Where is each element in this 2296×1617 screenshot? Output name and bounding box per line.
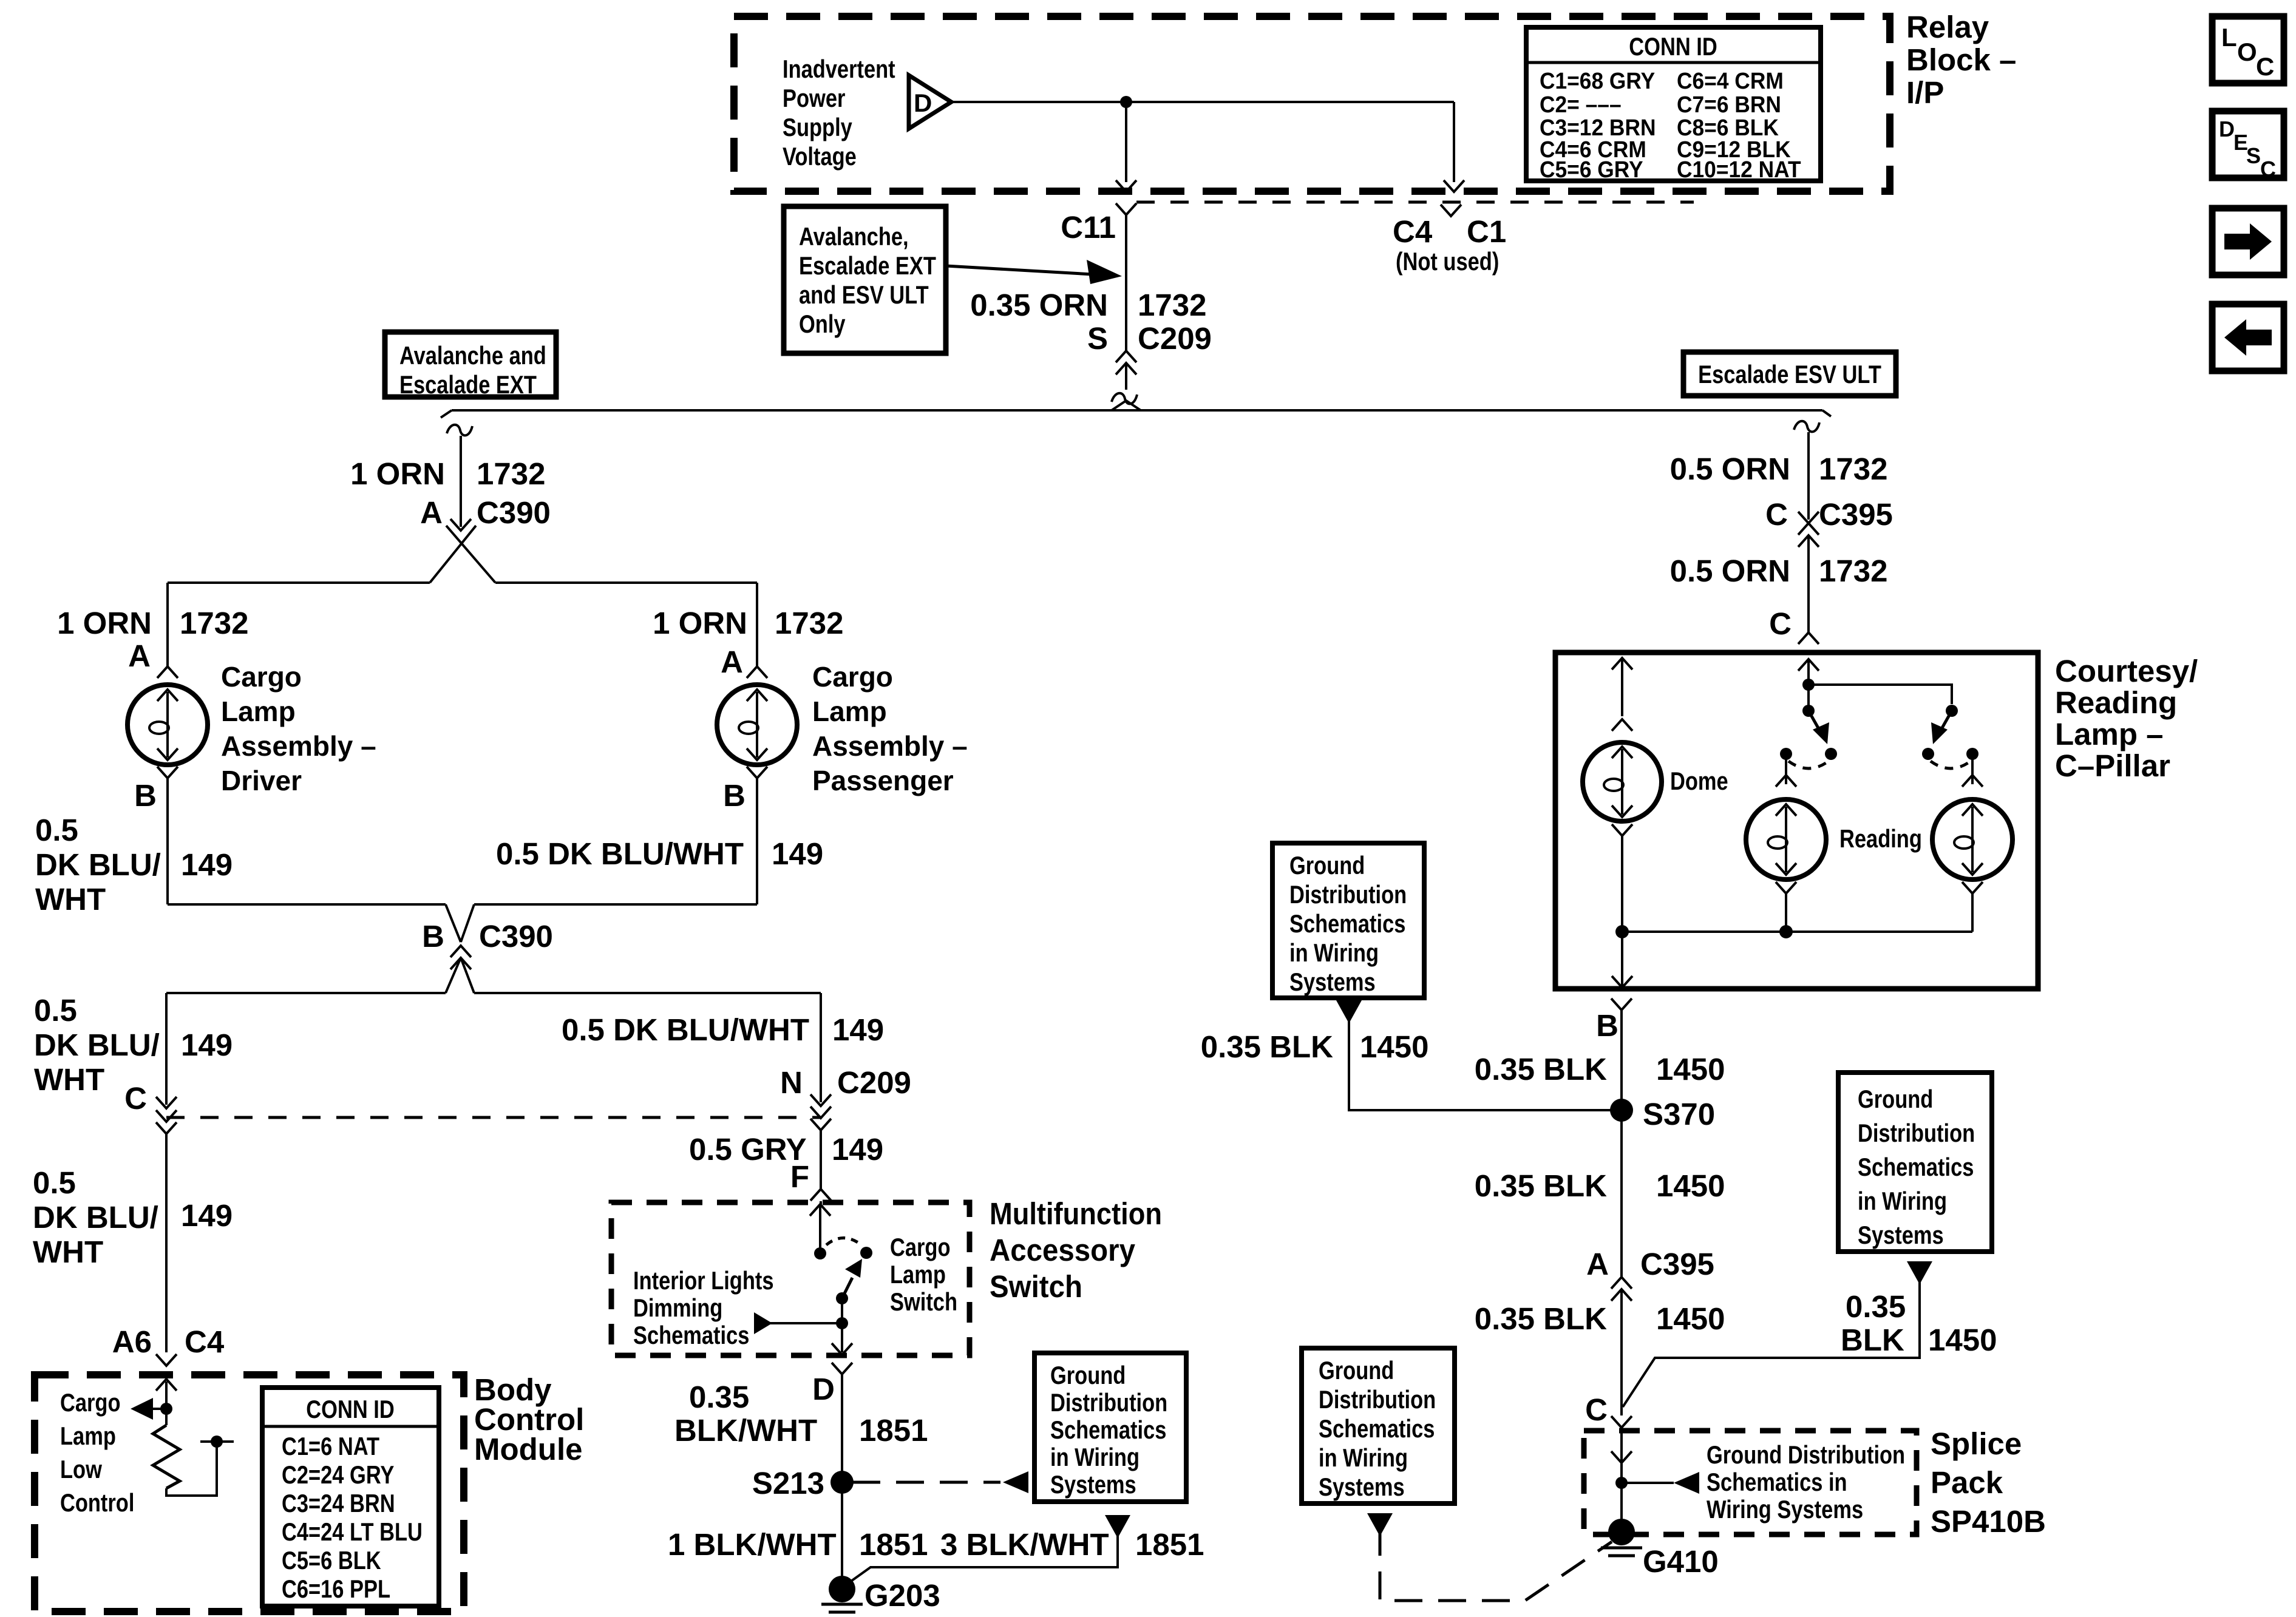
connector A C395 double chevron [1611, 1277, 1632, 1289]
svg-text:1732: 1732 [477, 456, 545, 491]
svg-text:Reading: Reading [1839, 824, 1922, 853]
right switch blade with arrow [1941, 711, 1952, 729]
svg-text:Ground: Ground [1289, 851, 1365, 880]
wire blade to junction [841, 1298, 843, 1323]
svg-text:1 ORN: 1 ORN [57, 606, 152, 640]
svg-text:Distribution: Distribution [1319, 1385, 1436, 1414]
svg-text:Lamp: Lamp [60, 1422, 116, 1450]
svg-text:Inadvertent: Inadvertent [783, 55, 895, 83]
svg-text:B: B [134, 778, 157, 813]
cargo lamp passenger bulb [717, 685, 797, 765]
ground symbol G410 [1601, 1547, 1642, 1550]
svg-text:CONN ID: CONN ID [306, 1395, 394, 1423]
svg-text:3 BLK/WHT: 3 BLK/WHT [940, 1527, 1109, 1562]
svg-text:S: S [1087, 321, 1108, 356]
svg-text:B: B [1596, 1008, 1618, 1043]
splice node S370 [1610, 1099, 1633, 1122]
svg-text:C4: C4 [185, 1324, 225, 1359]
svg-text:Low: Low [60, 1455, 102, 1483]
svg-text:Reading: Reading [2055, 685, 2177, 720]
svg-text:WHT: WHT [34, 1062, 104, 1097]
wire right reading lamp to junction [1971, 893, 1974, 932]
svg-text:BLK: BLK [1841, 1323, 1904, 1357]
svg-text:Driver: Driver [221, 765, 302, 796]
svg-text:B: B [723, 778, 746, 813]
svg-text:Multifunction: Multifunction [990, 1196, 1162, 1231]
CONN ID table (relay block) [1526, 27, 1821, 181]
svg-text:C: C [1585, 1392, 1608, 1427]
dashed reference wire from S213 [852, 1481, 1000, 1484]
svg-text:D: D [812, 1372, 835, 1406]
svg-text:S: S [2246, 143, 2261, 168]
svg-text:Systems: Systems [1289, 968, 1376, 996]
svg-text:BLK/WHT: BLK/WHT [674, 1413, 817, 1448]
svg-text:1450: 1450 [1928, 1323, 1997, 1357]
connector chevron below dome lamp [1612, 824, 1632, 836]
svg-text:CONN ID: CONN ID [1629, 32, 1717, 61]
svg-text:1 ORN: 1 ORN [350, 456, 445, 491]
svg-text:DK BLU/: DK BLU/ [33, 1200, 158, 1235]
wire from reference to splice C [1623, 1276, 1920, 1407]
svg-text:C10=12 NAT: C10=12 NAT [1677, 157, 1801, 183]
ground symbol G203 [821, 1603, 863, 1606]
reading lamp right bulb [1932, 799, 2012, 880]
svg-text:in Wiring: in Wiring [1858, 1187, 1947, 1215]
stub to interior lights dimming [766, 1322, 842, 1324]
bus chevron at C209 tap [1112, 401, 1141, 410]
svg-text:Pack: Pack [1931, 1465, 2003, 1500]
svg-text:Control: Control [60, 1488, 134, 1517]
svg-text:S370: S370 [1643, 1097, 1715, 1131]
svg-text:Ground: Ground [1858, 1085, 1933, 1113]
dashed connector line C209 lower [166, 1116, 821, 1119]
svg-text:G410: G410 [1643, 1544, 1719, 1579]
svg-text:1450: 1450 [1656, 1301, 1725, 1336]
reference arrow to ground distribution box [1003, 1471, 1028, 1493]
left switch pivot node [1802, 705, 1815, 717]
svg-text:Schematics in: Schematics in [1707, 1468, 1847, 1496]
svg-text:1450: 1450 [1656, 1168, 1725, 1203]
svg-text:C2=24 GRY: C2=24 GRY [282, 1460, 394, 1489]
left switch travel dashed arc [1788, 761, 1829, 768]
svg-text:Module: Module [474, 1432, 582, 1466]
connector chevron B passenger lamp [747, 767, 767, 778]
svg-text:and ESV ULT: and ESV ULT [799, 280, 929, 309]
stub to cargo lamp low control arrow [151, 1408, 166, 1410]
svg-text:1450: 1450 [1360, 1029, 1428, 1064]
svg-text:C5=6 GRY: C5=6 GRY [1540, 157, 1643, 183]
split horizontal left [168, 581, 430, 584]
wire from reference to S370 [1349, 1015, 1622, 1110]
reference arrow below box [1367, 1513, 1393, 1536]
CONN ID table (BCM) [262, 1388, 439, 1606]
main bus wire (Avalanche and Escalade EXT) [452, 409, 1822, 412]
svg-text:C11: C11 [1061, 210, 1116, 245]
switch pivot node [814, 1247, 826, 1259]
svg-text:1732: 1732 [1819, 452, 1887, 486]
svg-text:A: A [128, 639, 151, 673]
svg-text:1732: 1732 [180, 606, 248, 640]
svg-text:Cargo: Cargo [221, 661, 302, 693]
svg-text:S213: S213 [752, 1466, 824, 1500]
svg-text:A: A [1586, 1247, 1609, 1281]
connector chevron B [1611, 998, 1632, 1010]
reference arrow below box [1907, 1261, 1932, 1284]
reading lamp left bulb [1746, 799, 1826, 880]
join wire right [474, 903, 757, 906]
connector chevron F [810, 1189, 831, 1201]
svg-text:1 ORN: 1 ORN [653, 606, 747, 640]
svg-text:0.5 DK BLU/WHT: 0.5 DK BLU/WHT [562, 1012, 809, 1047]
svg-text:C3=24 BRN: C3=24 BRN [282, 1489, 395, 1517]
svg-text:Ground Distribution: Ground Distribution [1707, 1440, 1905, 1469]
connector chevron below left reading lamp [1776, 882, 1796, 893]
svg-text:0.35 BLK: 0.35 BLK [1475, 1052, 1607, 1086]
wire down to S213 [841, 1374, 843, 1588]
svg-text:0.35: 0.35 [689, 1380, 749, 1414]
svg-text:Schematics: Schematics [633, 1321, 749, 1349]
svg-text:Assembly –: Assembly – [221, 730, 376, 762]
connector chevron A passenger lamp [747, 666, 767, 678]
break symbol below bus right [1794, 421, 1819, 432]
svg-text:Schematics: Schematics [1858, 1153, 1974, 1181]
svg-text:I/P: I/P [1906, 75, 1944, 110]
connector chevron A driver lamp [157, 666, 178, 678]
dome lamp bulb [1583, 742, 1662, 821]
svg-text:Avalanche,: Avalanche, [799, 222, 909, 251]
svg-text:0.5: 0.5 [35, 813, 78, 847]
wire from D output [951, 101, 1454, 103]
connector chevron A6 [156, 1354, 177, 1366]
svg-text:0.5: 0.5 [34, 993, 77, 1028]
svg-text:0.5 GRY: 0.5 GRY [689, 1132, 807, 1167]
svg-text:149: 149 [181, 1198, 233, 1233]
switch feed arrow inside box [819, 1205, 821, 1252]
courtesy reading lamp box [1555, 653, 2038, 989]
cargo lamp driver bulb [127, 685, 208, 765]
svg-text:149: 149 [832, 1132, 883, 1167]
wire down from C to BCM [165, 1134, 168, 1352]
svg-text:C7=6 BRN: C7=6 BRN [1677, 92, 1781, 118]
dome lamp feed wire with up arrow [1621, 658, 1623, 716]
wire down from driver lamp [166, 778, 169, 904]
wire down to courtesy lamp [1807, 535, 1810, 632]
svg-text:A: A [721, 645, 743, 679]
svg-text:0.5 ORN: 0.5 ORN [1670, 554, 1790, 588]
svg-text:L: L [2221, 23, 2237, 52]
connector B C390 double chevron [450, 946, 471, 957]
wire into BCM with up arrow [165, 1381, 168, 1409]
connector C11 chevron [1116, 203, 1136, 215]
svg-text:C: C [124, 1081, 147, 1116]
junction node [1615, 1477, 1628, 1489]
svg-text:Accessory: Accessory [990, 1233, 1136, 1267]
svg-text:Lamp –: Lamp – [2055, 717, 2164, 751]
left switch contact nodes [1780, 748, 1792, 760]
wire into splice pack with down arrow [1620, 1432, 1623, 1532]
wire down from passenger lamp [756, 778, 758, 904]
connector chevrons at C [156, 1110, 177, 1122]
right switch travel dashed arc [1931, 761, 1971, 768]
switch blade node [836, 1292, 848, 1304]
splice node S213 [830, 1471, 854, 1494]
svg-text:0.5 DK BLU/WHT: 0.5 DK BLU/WHT [496, 836, 744, 871]
svg-text:0.5: 0.5 [33, 1165, 76, 1200]
join wire left [168, 903, 446, 906]
forward arrow box [2212, 208, 2284, 275]
ground distribution schematics box (bottom left) [1302, 1348, 1455, 1503]
wire down to N C209 [820, 993, 822, 1102]
reading lamps feed wire with up arrow [1807, 659, 1810, 685]
svg-text:C: C [2256, 52, 2274, 81]
connector chevron above dome lamp [1612, 719, 1632, 731]
ground node G203 [829, 1576, 855, 1602]
arrow from note box to wire [946, 266, 1093, 274]
svg-text:Assembly –: Assembly – [812, 730, 968, 762]
wire into multifunction switch box [820, 1201, 822, 1204]
junction node [160, 1403, 172, 1415]
converge V to B C390 [446, 904, 461, 942]
svg-text:C1=68 GRY: C1=68 GRY [1540, 69, 1655, 94]
bus left end hook [441, 410, 452, 418]
svg-text:Systems: Systems [1319, 1473, 1405, 1501]
dashed connector line C209 [1136, 201, 1694, 204]
wire across to right switch [1809, 685, 1952, 704]
crossover split X [430, 526, 476, 583]
svg-text:C5=6 BLK: C5=6 BLK [282, 1546, 381, 1575]
wire down to S370 [1620, 1010, 1623, 1110]
svg-text:1732: 1732 [1138, 288, 1206, 322]
back arrow box [2212, 304, 2284, 371]
svg-text:D: D [2219, 117, 2235, 141]
wire down to passenger lamp [756, 583, 758, 666]
wire down to C (splice pack) [1620, 1289, 1623, 1415]
ground junction wire inside lamp box [1622, 931, 1972, 933]
wire from reference down and left to G203 [845, 1530, 1118, 1585]
svg-text:F: F [790, 1159, 809, 1194]
svg-text:Voltage: Voltage [783, 142, 857, 171]
splice pack dashed box [1584, 1431, 1917, 1534]
junction node middle [1779, 925, 1793, 938]
svg-text:C4=24 LT BLU: C4=24 LT BLU [282, 1517, 423, 1546]
wire pivot stub [1807, 685, 1810, 711]
wire down to F [820, 1130, 822, 1188]
svg-text:Escalade EXT: Escalade EXT [399, 370, 537, 399]
svg-text:0.35: 0.35 [1846, 1289, 1906, 1324]
svg-text:D: D [914, 89, 932, 117]
wire C11 to S C209 [1125, 215, 1127, 351]
svg-text:Escalade EXT: Escalade EXT [799, 251, 936, 280]
svg-text:Distribution: Distribution [1050, 1388, 1167, 1417]
ground distribution reference arrow (3 BLK/WHT) [1105, 1515, 1130, 1538]
split horizontal right [495, 581, 757, 584]
svg-text:Cargo: Cargo [60, 1388, 121, 1417]
svg-text:A: A [420, 495, 443, 530]
svg-text:0.35 ORN: 0.35 ORN [970, 288, 1108, 322]
svg-text:149: 149 [772, 836, 823, 871]
svg-text:C6=4 CRM: C6=4 CRM [1677, 69, 1784, 94]
svg-text:1851: 1851 [859, 1527, 928, 1562]
relay block dashed box [734, 16, 1890, 191]
svg-text:Distribution: Distribution [1858, 1119, 1975, 1147]
svg-text:Schematics: Schematics [1289, 909, 1405, 938]
ground distribution schematics box (right) [1838, 1073, 1992, 1252]
svg-text:C1: C1 [1467, 214, 1506, 249]
svg-text:Dimming: Dimming [633, 1293, 722, 1322]
svg-text:C209: C209 [1138, 321, 1212, 356]
svg-text:Switch: Switch [990, 1269, 1082, 1304]
svg-text:Systems: Systems [1050, 1470, 1136, 1499]
svg-text:0.35 BLK: 0.35 BLK [1201, 1029, 1333, 1064]
svg-text:Ground: Ground [1050, 1361, 1126, 1389]
connector C4 chevron [1441, 205, 1461, 216]
cargo lamp switch blade with arrow [842, 1278, 852, 1298]
svg-text:Lamp: Lamp [812, 696, 887, 727]
svg-text:Relay: Relay [1906, 10, 1989, 44]
svg-text:in Wiring: in Wiring [1050, 1443, 1140, 1471]
wire stub below connector [1125, 363, 1127, 390]
svg-text:Avalanche and: Avalanche and [399, 341, 546, 370]
svg-text:Interior Lights: Interior Lights [633, 1266, 774, 1295]
svg-text:149: 149 [832, 1012, 884, 1047]
svg-text:Cargo: Cargo [890, 1233, 951, 1261]
dashed wire from reference to G410 [1380, 1528, 1612, 1601]
ground distribution schematics box (S370) [1272, 843, 1424, 998]
svg-text:0.35 BLK: 0.35 BLK [1475, 1168, 1607, 1203]
svg-text:SP410B: SP410B [1931, 1504, 2046, 1539]
right switch contact nodes [1922, 748, 1934, 760]
resistor (cargo lamp low control) [165, 1409, 168, 1425]
svg-text:Schematics: Schematics [1319, 1414, 1435, 1443]
svg-text:O: O [2237, 38, 2257, 66]
wire down with arrow to box edge [841, 1323, 843, 1352]
svg-text:C6=16 PPL: C6=16 PPL [282, 1575, 390, 1603]
note box Avalanche, Escalade EXT and ESV ULT Only [784, 206, 946, 353]
svg-text:1732: 1732 [775, 606, 843, 640]
connector chevron above right reading lamp [1962, 775, 1983, 787]
svg-text:C: C [1765, 497, 1788, 532]
lower join wire right [474, 992, 821, 994]
svg-text:Distribution: Distribution [1289, 880, 1407, 909]
reference arrow below box [1336, 1000, 1362, 1023]
svg-text:Cargo: Cargo [812, 661, 893, 693]
wire down to A C395 [1620, 1110, 1623, 1277]
diverge V below B C390 [446, 958, 461, 993]
svg-text:0.35 BLK: 0.35 BLK [1475, 1301, 1607, 1336]
lower join wire left [166, 992, 446, 994]
svg-text:B: B [422, 919, 444, 954]
svg-text:C1=6 NAT: C1=6 NAT [282, 1432, 379, 1460]
connector C C395 double chevron [1798, 523, 1819, 535]
connector chevron above left reading lamp [1776, 775, 1796, 787]
svg-text:Only: Only [799, 310, 846, 338]
wire down from bus to A C390 [460, 436, 462, 527]
svg-text:Passenger: Passenger [812, 765, 954, 796]
junction node [1802, 679, 1815, 691]
connector chevron B driver lamp [157, 767, 178, 778]
connector N C209 arrow and chevrons [810, 1094, 831, 1106]
ground node G410 [1608, 1519, 1635, 1545]
svg-text:C209: C209 [837, 1065, 911, 1100]
svg-text:Schematics: Schematics [1050, 1415, 1166, 1444]
svg-text:Power: Power [783, 84, 845, 112]
svg-text:Dome: Dome [1670, 767, 1728, 795]
component box Escalade ESV ULT [1683, 352, 1896, 396]
svg-text:WHT: WHT [33, 1235, 103, 1269]
connector S C209 double chevron [1116, 351, 1136, 362]
bus right end hook [1822, 410, 1831, 416]
stub wire [200, 1440, 234, 1443]
svg-text:C395: C395 [1640, 1247, 1714, 1281]
wire left reading lamp to junction [1785, 893, 1787, 932]
svg-text:C4: C4 [1393, 214, 1433, 249]
wire down to C (BCM branch) [165, 993, 168, 1105]
junction node on stub [211, 1436, 223, 1448]
wire down to C C395 [1807, 432, 1810, 520]
switch travel dashed arc [826, 1238, 861, 1246]
LOC reference box [2212, 16, 2284, 83]
wire down to driver lamp [166, 583, 169, 666]
stub to ground distribution reference [1622, 1482, 1674, 1484]
connector chevron C splice [1611, 1416, 1632, 1428]
svg-text:Block –: Block – [1906, 42, 2016, 77]
svg-text:149: 149 [181, 847, 233, 882]
break symbol below bus left [447, 425, 472, 436]
svg-text:N: N [780, 1065, 803, 1100]
svg-text:1851: 1851 [1135, 1527, 1204, 1562]
junction node [1120, 96, 1132, 108]
svg-text:0.5 ORN: 0.5 ORN [1670, 452, 1790, 486]
svg-text:C2= –––: C2= ––– [1540, 92, 1622, 118]
connector chevron below right reading lamp [1962, 882, 1983, 893]
svg-text:DK BLU/: DK BLU/ [35, 847, 161, 882]
svg-text:Courtesy/: Courtesy/ [2055, 654, 2198, 688]
switch contact node [860, 1247, 872, 1259]
svg-text:C390: C390 [477, 495, 551, 530]
connector chevron C [1798, 632, 1819, 644]
wire dome lamp to junction [1621, 836, 1623, 932]
svg-text:C: C [2260, 157, 2276, 181]
ground distribution schematics box (S213) [1034, 1353, 1186, 1502]
junction node left [1615, 925, 1629, 938]
junction node [836, 1317, 848, 1329]
svg-text:1450: 1450 [1656, 1052, 1725, 1086]
svg-text:Lamp: Lamp [890, 1260, 946, 1289]
svg-text:Splice: Splice [1931, 1426, 2022, 1461]
svg-text:Escalade ESV ULT: Escalade ESV ULT [1698, 360, 1881, 388]
svg-text:1 BLK/WHT: 1 BLK/WHT [668, 1527, 837, 1562]
connector chevron D [832, 1363, 852, 1374]
svg-text:in Wiring: in Wiring [1319, 1443, 1408, 1472]
multifunction accessory switch dashed box [611, 1202, 970, 1355]
svg-text:Switch: Switch [890, 1287, 957, 1316]
body control module dashed box [35, 1375, 464, 1612]
wire left contact to reading lamp [1785, 754, 1787, 784]
svg-text:Ground: Ground [1319, 1356, 1394, 1385]
svg-text:C: C [1769, 606, 1792, 641]
right switch pivot node [1946, 705, 1958, 717]
svg-text:Wiring Systems: Wiring Systems [1707, 1495, 1863, 1524]
svg-text:Supply: Supply [783, 113, 852, 141]
svg-text:WHT: WHT [35, 882, 106, 917]
wire down to C4 [1453, 102, 1455, 182]
svg-text:1851: 1851 [859, 1413, 928, 1448]
wire down with arrow to box edge [1621, 932, 1623, 986]
svg-text:1732: 1732 [1819, 554, 1887, 588]
svg-text:C–Pillar: C–Pillar [2055, 748, 2170, 783]
component box Avalanche and Escalade EXT [385, 332, 556, 397]
svg-text:Systems: Systems [1858, 1221, 1944, 1249]
